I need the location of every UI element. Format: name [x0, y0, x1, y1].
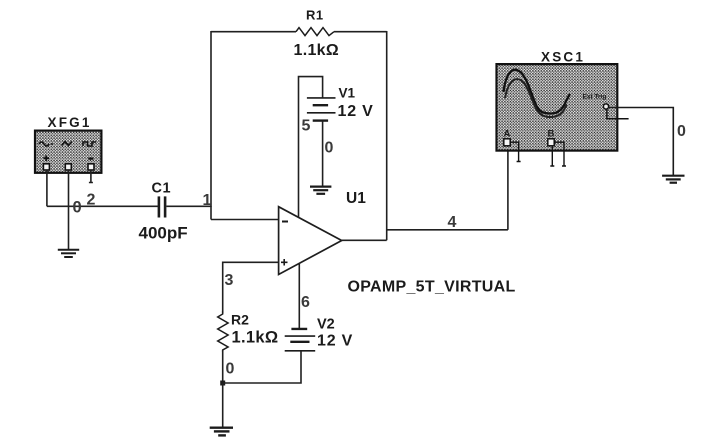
- resistor R1: [296, 28, 334, 36]
- svg-text:Ext Trig: Ext Trig: [583, 94, 607, 101]
- wire feedback top: [211, 31, 387, 33]
- svg-text:3: 3: [225, 272, 234, 289]
- wire output stub: [342, 239, 387, 241]
- wire XFG plus: [46, 170, 48, 206]
- svg-text:OPAMP_5T_VIRTUAL: OPAMP_5T_VIRTUAL: [348, 279, 516, 296]
- wire C1 to node1: [166, 205, 211, 207]
- battery V2: [285, 329, 316, 351]
- wire noninverting input: [223, 262, 279, 313]
- wire right frame: [386, 31, 388, 240]
- svg-text:0: 0: [325, 140, 334, 157]
- wire output to scope: [387, 229, 508, 231]
- wire R2 to ground: [222, 383, 224, 428]
- wire R2 bottom: [222, 350, 224, 383]
- battery V1: [307, 98, 336, 121]
- svg-text:1.1kΩ: 1.1kΩ: [294, 42, 339, 59]
- wire XFG common: [68, 170, 70, 250]
- svg-text:R2: R2: [231, 312, 249, 328]
- svg-text:2: 2: [87, 192, 96, 209]
- svg-text:A: A: [504, 129, 511, 140]
- svg-text:0: 0: [226, 361, 235, 378]
- svg-text:V2: V2: [317, 317, 335, 333]
- svg-text:B: B: [548, 129, 555, 140]
- svg-text:6: 6: [301, 294, 310, 311]
- svg-text:400pF: 400pF: [139, 224, 188, 243]
- wire XFG minus stub: [89, 170, 93, 183]
- wire inverting input: [211, 219, 279, 221]
- ground V1: [310, 187, 331, 194]
- svg-text:C1: C1: [152, 181, 172, 197]
- svg-text:1.1kΩ: 1.1kΩ: [232, 329, 279, 347]
- wire pin5 V1 loop: [299, 77, 323, 218]
- svg-text:4: 4: [448, 214, 457, 231]
- junction: [220, 381, 225, 386]
- function generator XFG1: [35, 131, 101, 173]
- ground R2: [210, 428, 233, 436]
- wire V1 to ground: [322, 121, 324, 187]
- svg-text:XFG1: XFG1: [48, 115, 92, 130]
- svg-text:12 V: 12 V: [338, 103, 374, 120]
- wire ext trig to ground: [609, 108, 674, 176]
- svg-text:R1: R1: [306, 8, 324, 23]
- ground scope: [662, 176, 684, 183]
- wire left frame: [210, 31, 212, 207]
- op-amp U1: [279, 207, 342, 275]
- svg-text:U1: U1: [346, 190, 366, 207]
- svg-text:0: 0: [677, 123, 686, 140]
- wire scope drop: [507, 147, 509, 230]
- wire node1 jog: [210, 206, 212, 219]
- svg-text:12 V: 12 V: [317, 333, 353, 350]
- capacitor C1: [159, 196, 165, 217]
- ground XFG: [58, 250, 79, 257]
- svg-text:5: 5: [302, 118, 311, 135]
- svg-text:0: 0: [73, 199, 82, 217]
- wire signal to C1: [47, 205, 158, 207]
- wire pin6: [298, 264, 300, 329]
- svg-text:XSC1: XSC1: [541, 50, 585, 65]
- svg-text:V1: V1: [339, 86, 356, 101]
- oscilloscope XSC1: [497, 64, 629, 166]
- wire bottom link: [223, 351, 301, 383]
- resistor R2: [218, 311, 228, 352]
